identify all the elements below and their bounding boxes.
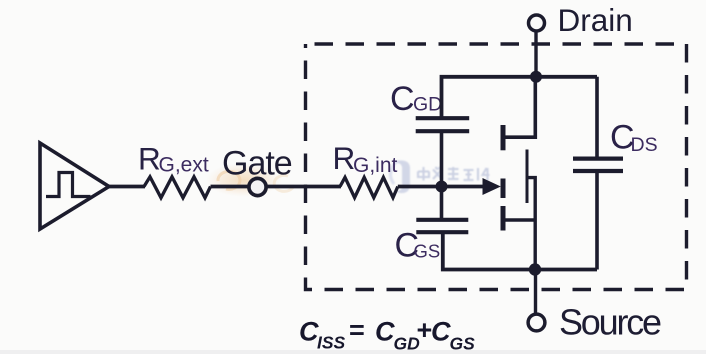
resistor R_G,ext — [144, 177, 211, 198]
transistor Q1 source lead — [506, 218, 537, 222]
watermark blue logo — [390, 160, 410, 193]
svg-text:=: = — [349, 315, 365, 345]
svg-text:G,int: G,int — [353, 154, 398, 177]
resistor R_G,int — [340, 177, 398, 197]
wire: C_DS down to source rail — [595, 171, 599, 270]
svg-text:GD: GD — [413, 93, 442, 115]
node Source terminal circle — [528, 314, 545, 331]
capacitor C_GS — [416, 220, 468, 232]
junction source node — [529, 263, 541, 275]
watermark peach smudge near Gate — [206, 163, 294, 197]
svg-text:GS: GS — [450, 334, 476, 354]
wire: source junction down to source terminal — [534, 270, 537, 315]
junction drain node — [530, 71, 542, 83]
svg-text:G,ext: G,ext — [159, 154, 209, 177]
svg-text:Source: Source — [559, 302, 661, 343]
transistor Q1 drain lead — [506, 77, 536, 137]
svg-text:R: R — [333, 140, 356, 176]
wire: gate node into dashed box to R_G,int — [266, 185, 341, 189]
wire: R_G,int to internal gate junction — [398, 185, 442, 189]
svg-text:C: C — [299, 317, 319, 347]
svg-text:C: C — [375, 317, 395, 347]
svg-text:+: + — [416, 315, 432, 345]
wire: driver output to R_G,ext — [108, 185, 145, 189]
node Drain terminal circle — [529, 15, 545, 31]
transistor Q1 gate contact bar — [501, 179, 506, 199]
capacitor C_GD — [416, 118, 470, 131]
wire: junction up to C_GD — [440, 132, 444, 187]
svg-text:C: C — [431, 317, 451, 347]
svg-text:C: C — [390, 80, 415, 118]
node Gate terminal circle — [249, 178, 266, 195]
svg-text:DS: DS — [631, 134, 658, 156]
transistor Q1 body tie — [527, 178, 535, 270]
wire: drain junction up to drain terminal — [534, 31, 537, 77]
transistor Q1 channel line — [526, 150, 529, 204]
dashed package boundary box — [306, 44, 687, 290]
wire: top rail down to C_DS — [595, 77, 599, 159]
wire: C_GS down and across to source junction — [443, 232, 597, 269]
wire: R_G,ext to gate node — [211, 185, 251, 189]
wire: C_GD up and across top to C_DS — [442, 77, 598, 118]
driver U1 triangle — [40, 143, 109, 229]
wire: gate junction down to C_GS — [440, 187, 444, 221]
svg-text:GS: GS — [414, 241, 441, 262]
gate arrowhead — [483, 178, 501, 195]
transistor Q1 drain contact bar — [501, 125, 506, 150]
watermark blue characters — [418, 167, 490, 181]
driver U1 pulse symbol — [46, 173, 91, 197]
capacitor C_DS — [573, 159, 623, 171]
junction internal gate node — [436, 181, 448, 193]
svg-text:ISS: ISS — [317, 333, 346, 353]
transistor Q1 source contact bar — [501, 206, 506, 231]
svg-text:Drain: Drain — [558, 2, 633, 38]
formula C_ISS = C_GD + C_GS — [299, 315, 475, 354]
svg-text:R: R — [138, 141, 161, 177]
wire: gate arrow into MOSFET gate — [442, 185, 486, 189]
